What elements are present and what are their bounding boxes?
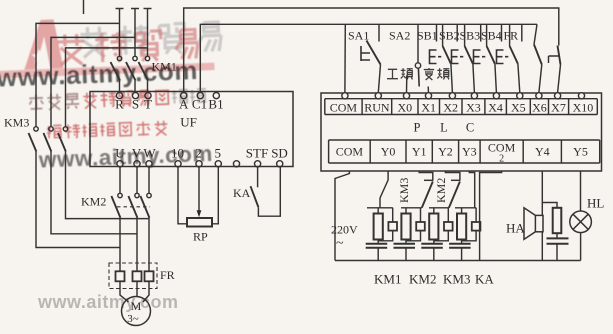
svg-text:V: V — [132, 146, 142, 161]
wire terminal 2 wiper arrow — [197, 167, 202, 217]
wire COM riser — [344, 24, 346, 92]
svg-text:KM3: KM3 — [443, 272, 470, 287]
svg-text:S: S — [132, 97, 139, 112]
terminal V — [132, 146, 142, 167]
svg-text:3~: 3~ — [127, 313, 139, 325]
wire V inverter to KM2 — [136, 167, 138, 193]
wire terminal A to X7 line — [184, 8, 559, 93]
node bar branch3 — [429, 207, 449, 209]
svg-text:KM2: KM2 — [81, 195, 106, 209]
svg-text:B1: B1 — [208, 97, 223, 112]
svg-text:HA: HA — [506, 221, 525, 236]
terminal COM input — [330, 93, 358, 115]
linkage dashes KM2 — [117, 206, 150, 208]
svg-text:W: W — [143, 146, 156, 161]
svg-text:KA: KA — [475, 272, 494, 287]
terminal COM2 — [488, 141, 516, 165]
svg-text:10: 10 — [171, 146, 184, 161]
svg-text:A: A — [179, 97, 189, 112]
wire FR to motor 2 — [136, 281, 138, 296]
PLC output cell row — [329, 140, 600, 163]
svg-text:www.aitmy.com: www.aitmy.com — [37, 292, 179, 312]
wire terminal 10 to RP left — [178, 167, 187, 224]
thermal contact FR to X6 — [534, 24, 542, 92]
svg-text:UF: UF — [180, 115, 197, 130]
watermark red caption line1 — [29, 88, 206, 111]
svg-text:KM1: KM1 — [374, 272, 401, 287]
svg-text:R: R — [115, 97, 124, 112]
svg-text:X10: X10 — [573, 100, 594, 114]
wire V KM2 to FR — [136, 218, 138, 272]
wire KA to SD — [258, 167, 280, 216]
selector switch SA1 — [361, 41, 381, 93]
contactor KM2 pole 2 — [128, 193, 139, 217]
svg-text:220V: 220V — [331, 223, 358, 237]
PLC input cell row — [325, 99, 598, 115]
watermark big red title — [57, 29, 198, 65]
svg-text:Y1: Y1 — [412, 145, 427, 159]
coil KM3 — [429, 208, 438, 244]
svg-text:HL: HL — [587, 196, 604, 211]
wire Y2 to KM2 interlock — [445, 171, 460, 180]
svg-text:KM2: KM2 — [434, 178, 448, 203]
wire KM3 pole3 to W bypass — [66, 152, 150, 219]
wire phase L2 — [131, 9, 139, 93]
wire W KM2 to FR — [148, 218, 150, 272]
NC contact on X7 riser — [549, 46, 561, 93]
snubber capacitor branch3 — [421, 244, 443, 261]
svg-text:COM: COM — [488, 141, 516, 155]
thermal overload FR dashed box — [109, 263, 157, 289]
wire phase L1 — [116, 9, 124, 93]
contactor KM1 pole 3 — [139, 56, 150, 80]
contactor KM2 pole 3 — [140, 193, 151, 217]
selector switch SA2 — [407, 24, 429, 92]
snubber resistor branch1 — [378, 208, 397, 241]
bottom rail N — [335, 260, 581, 262]
terminal SD — [271, 146, 288, 167]
svg-text:~: ~ — [336, 236, 344, 251]
svg-text:SA1: SA1 — [348, 29, 369, 43]
snubber capacitor branch2 — [394, 244, 416, 261]
lamp HL — [570, 211, 592, 233]
wire terminal 5 to RP right — [212, 167, 218, 224]
svg-text:Y4: Y4 — [535, 145, 550, 159]
terminal W — [143, 146, 156, 167]
terminal X0 — [397, 93, 412, 115]
svg-text:5: 5 — [215, 146, 222, 161]
terminal unlabeled — [233, 161, 239, 167]
svg-text:SB3: SB3 — [460, 29, 481, 43]
svg-text:X2: X2 — [443, 100, 458, 114]
svg-text:Y0: Y0 — [381, 145, 396, 159]
wire tap L3 to KM3 — [66, 48, 148, 127]
terminal X5 — [511, 93, 526, 115]
svg-text:X4: X4 — [488, 100, 503, 114]
terminal 5 — [215, 146, 222, 167]
svg-text:Y2: Y2 — [438, 145, 453, 159]
svg-text:RP: RP — [193, 230, 208, 244]
pushbutton SB2 — [452, 24, 475, 92]
svg-text:2: 2 — [499, 154, 504, 165]
terminal X2 — [443, 93, 458, 115]
terminal U — [115, 146, 125, 167]
wire W inverter to KM2 — [148, 167, 150, 193]
svg-text:L: L — [440, 121, 448, 135]
inverter UF box — [90, 92, 293, 167]
svg-text:P: P — [414, 121, 421, 135]
svg-text:COM: COM — [336, 145, 364, 159]
svg-text:SB1: SB1 — [417, 29, 438, 43]
terminal R — [115, 93, 124, 112]
NC interlock contact KM2 — [449, 180, 461, 208]
terminal 2 — [195, 146, 202, 167]
wire Y3 to KA coil branch — [469, 171, 474, 208]
svg-text:X1: X1 — [421, 100, 436, 114]
svg-text:SB4: SB4 — [481, 29, 502, 43]
wire terminal C1 to control rail — [200, 24, 537, 92]
coil KA — [457, 208, 466, 244]
snubber capacitor branch4 — [449, 244, 471, 261]
contactor KM3 pole 3 — [58, 127, 68, 152]
terminal B1 — [208, 93, 223, 112]
pushbutton SB1 — [430, 24, 453, 92]
FR heater element 2 — [133, 271, 142, 281]
terminal X10 — [573, 93, 594, 115]
svg-text:SD: SD — [271, 146, 288, 161]
pushbutton SB4 — [497, 24, 520, 92]
wire Y5 to lamp — [580, 171, 582, 211]
svg-text:KM3: KM3 — [397, 178, 411, 203]
label PLC — [414, 121, 475, 135]
wire KM3 pole2 to V bypass — [51, 152, 137, 234]
svg-text:COM: COM — [330, 100, 358, 114]
wire KM3 pole1 to U bypass — [36, 152, 120, 248]
snubber resistor branch2 — [406, 208, 425, 241]
svg-text:X3: X3 — [466, 100, 481, 114]
node bar branch4 — [455, 207, 476, 209]
svg-text:Y3: Y3 — [462, 145, 477, 159]
label gongpin — [387, 68, 413, 79]
terminal X1 — [421, 93, 436, 115]
contactor KM2 pole 1 — [111, 193, 122, 217]
svg-text:KM1: KM1 — [152, 60, 177, 74]
wire U inverter to KM2 — [119, 167, 121, 193]
svg-text:KA: KA — [233, 186, 251, 200]
svg-text:FR: FR — [160, 268, 175, 282]
terminal X6 — [532, 93, 547, 115]
NC interlock contact KM3 — [422, 180, 434, 208]
potentiometer RP — [187, 218, 212, 227]
FR heater element 3 — [145, 271, 154, 281]
terminal X7 — [551, 93, 566, 115]
wire phase L3 — [144, 9, 152, 93]
terminal STF — [246, 146, 268, 167]
node bar branch2 — [401, 207, 422, 209]
watermark logo A — [23, 19, 64, 69]
label bianpin — [424, 68, 449, 80]
buzzer HA — [524, 208, 543, 240]
terminal RUN — [364, 93, 390, 115]
svg-text:X5: X5 — [511, 100, 526, 114]
svg-text:T: T — [144, 97, 152, 112]
pushbutton SB3 — [474, 24, 497, 92]
wire Y4 to rail — [541, 171, 543, 261]
motor M — [122, 297, 151, 326]
terminal S — [132, 93, 139, 112]
terminal X3 — [466, 93, 481, 115]
snubber branch HA — [542, 203, 568, 261]
terminal A — [179, 93, 189, 112]
snubber resistor branch4 — [462, 208, 481, 241]
wire U KM2 to FR — [119, 218, 121, 272]
relay contact KA — [251, 167, 259, 207]
PLC outer box — [321, 93, 602, 171]
svg-text:U: U — [115, 146, 125, 161]
svg-text:X6: X6 — [532, 100, 547, 114]
terminal 10 — [171, 146, 184, 167]
svg-text:FR: FR — [504, 29, 519, 43]
watermark pink band — [0, 63, 215, 79]
coil KM1 — [374, 208, 383, 244]
wire tap L1 to KM3 — [36, 23, 120, 126]
svg-text:KM2: KM2 — [409, 272, 436, 287]
wire FR to motor 1 — [120, 281, 129, 302]
terminal X4 — [488, 93, 503, 115]
wire FR to motor 3 — [143, 281, 149, 302]
wire COM output to 220V rail — [335, 171, 349, 261]
watermark big gray title — [80, 22, 222, 58]
contactor KM1 pole 1 — [111, 56, 122, 80]
svg-text:STF: STF — [246, 146, 268, 161]
snubber resistor branch3 — [434, 208, 453, 241]
svg-text:C: C — [466, 121, 474, 135]
terminal C1 — [192, 93, 207, 112]
terminal T — [144, 93, 152, 112]
label 220V — [331, 223, 358, 252]
svg-text:X0: X0 — [397, 100, 412, 114]
contactor KM3 pole 2 — [44, 127, 54, 152]
svg-text:SA2: SA2 — [389, 29, 410, 43]
contactor KM3 pole 1 — [29, 127, 39, 152]
node bar branch1 — [367, 207, 393, 209]
contactor KM1 pole 2 — [126, 56, 137, 80]
wire tap L2 to KM3 — [51, 37, 135, 126]
svg-text:M: M — [131, 299, 142, 313]
svg-text:Y5: Y5 — [573, 145, 588, 159]
stub wire top-left — [83, 0, 85, 14]
coil KM2 — [401, 208, 410, 244]
snubber capacitor branch1 — [366, 244, 388, 261]
svg-text:KM3: KM3 — [4, 116, 29, 130]
svg-text:X7: X7 — [551, 100, 566, 114]
wire Y1 to KM3 interlock — [419, 171, 433, 180]
label cell borders above switches — [379, 24, 522, 41]
svg-text:RUN: RUN — [364, 100, 390, 114]
wire lamp to rail — [580, 233, 582, 261]
svg-text:2: 2 — [195, 146, 202, 161]
FR heater element 1 — [116, 271, 125, 281]
wire COM2 to rail — [480, 171, 502, 261]
watermark red caption line2 — [47, 121, 168, 140]
wire Y0 to KM1 coil branch — [380, 171, 388, 208]
svg-text:C1: C1 — [192, 97, 207, 112]
